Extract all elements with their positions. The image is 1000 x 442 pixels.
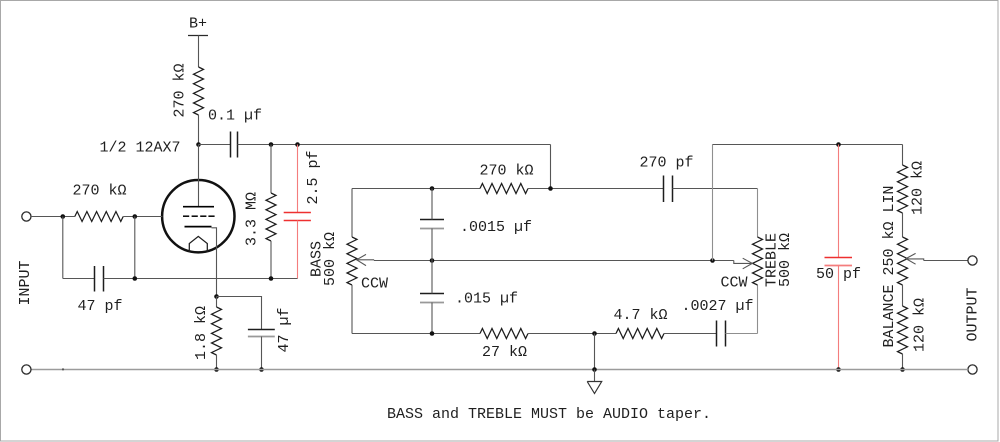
wire wiper row (374, 260, 712, 262)
wire treble pot bottom drop (757, 285, 759, 334)
wire cathode to 47uf (217, 297, 262, 330)
ground symbol (587, 370, 602, 394)
wire .0015 leads (431, 189, 433, 261)
wire input to grid R (31, 216, 75, 218)
potentiometer TREBLE 500k (753, 237, 763, 285)
capacitor .0015uf (420, 220, 444, 229)
capacitor 47pf grid (95, 266, 104, 292)
label 0.1 uf (208, 107, 262, 124)
resistor 1.8k cathode (212, 307, 222, 355)
wire ground rail (31, 369, 968, 371)
wire top rail drop (550, 145, 552, 189)
terminal input top (22, 212, 31, 221)
label 1.8 kOhm (193, 306, 210, 360)
wire .015 leads (431, 261, 433, 334)
tube cathode bar (185, 226, 212, 228)
label 500 kOhm bass (322, 232, 339, 286)
potentiometer BASS 500k (347, 237, 357, 285)
label BASS (308, 241, 325, 277)
resistor 3.3M feedback lead top (270, 145, 272, 194)
label 120 kOhm upper (909, 161, 926, 215)
svg-text:CCW: CCW (361, 275, 388, 292)
label 270 kOhm plate (172, 63, 189, 117)
label 3.3 MOhm (244, 192, 261, 246)
wire shunt right riser (134, 217, 136, 279)
capacitor 47uf cathode (248, 330, 275, 337)
capacitor 2.5pf feedback lead top (297, 145, 299, 213)
svg-text:270 kΩ: 270 kΩ (172, 63, 189, 117)
junction grid R right (133, 214, 138, 219)
resistor 27k (480, 329, 528, 339)
junction ground rail (592, 367, 597, 372)
junction 50pf bottom (836, 367, 841, 372)
capacitor 0.1uf coupling (231, 132, 238, 158)
resistor 120k lower (898, 306, 908, 354)
label 120 kOhm lower (912, 298, 929, 352)
svg-text:270 kΩ: 270 kΩ (479, 163, 533, 180)
wire stack top row (352, 188, 480, 190)
junction .015 bottom (430, 331, 435, 336)
tube plate lead (198, 145, 200, 207)
label 4.7 kOhm (613, 307, 667, 324)
wire R plate to plate node (198, 115, 200, 145)
label 2.5 pf (305, 150, 322, 204)
svg-text:47 µf: 47 µf (276, 307, 293, 352)
tube envelope circle (162, 180, 234, 252)
wire stack bottom left (352, 333, 480, 335)
svg-text:INPUT: INPUT (17, 260, 34, 305)
resistor 3.3M feedback (266, 193, 276, 241)
wire balance top drop (902, 145, 904, 166)
label 500 kOhm treble (777, 233, 794, 287)
wire grid R to tube (123, 216, 162, 218)
svg-text:47 pf: 47 pf (77, 298, 122, 315)
label 27 kOhm (482, 344, 527, 361)
junction 1.8k rail (214, 367, 219, 372)
svg-text:.0027 µf: .0027 µf (681, 298, 753, 315)
wire 3.3M bottom lead (270, 241, 272, 279)
label 270 kOhm grid (72, 183, 126, 200)
bass wiper arrow (357, 254, 374, 265)
junction feedback bottom (269, 276, 274, 281)
capacitor 50pf lead top (838, 145, 840, 258)
wire plate node to C coupling (199, 144, 231, 146)
svg-text:.015 µf: .015 µf (455, 290, 518, 307)
wire 120k to balance pot (902, 213, 904, 237)
junction shunt right (133, 276, 138, 281)
label 50 pf (816, 266, 861, 283)
capacitor .015uf (420, 294, 444, 303)
wire top right rail (713, 144, 903, 146)
balance wiper arrow (906, 253, 924, 264)
resistor 270k grid (75, 212, 123, 222)
label 47 pf (77, 298, 122, 315)
wire pot to 120k lower (902, 285, 904, 306)
wire input shunt left drop (62, 217, 64, 279)
svg-text:1.8 kΩ: 1.8 kΩ (193, 306, 210, 360)
svg-text:.0015 µf: .0015 µf (460, 219, 532, 236)
wire top rail left (238, 144, 551, 146)
resistor 270k plate load (194, 67, 204, 115)
resistor 1.8k cathode lead (216, 297, 218, 308)
svg-text:2.5 pf: 2.5 pf (305, 150, 322, 204)
wire 1.8k to ground rail (216, 355, 218, 370)
junction ground node (592, 331, 597, 336)
svg-text:270 kΩ: 270 kΩ (72, 183, 126, 200)
capacitor 50pf lead bottom (838, 266, 840, 370)
junction 2.5pf top (295, 142, 300, 147)
label .0015 uf (460, 219, 532, 236)
capacitor 2.5pf plates (284, 213, 311, 221)
wire treble pot top drop (757, 189, 759, 238)
potentiometer BALANCE 250k LIN (898, 237, 908, 285)
wire B+ to R plate (198, 36, 200, 68)
terminal input bottom (22, 365, 31, 374)
tube grid dashes (183, 215, 215, 217)
resistor 4.7k (616, 329, 664, 339)
terminal output wiper (968, 256, 977, 265)
wire 120k lower to rail (902, 354, 904, 370)
svg-text:OUTPUT: OUTPUT (965, 287, 982, 341)
svg-text:4.7 kΩ: 4.7 kΩ (613, 307, 667, 324)
capacitor 2.5pf lead bottom (297, 221, 299, 279)
label .0027 uf (681, 298, 753, 315)
svg-text:120 kΩ: 120 kΩ (909, 161, 926, 215)
wire shunt bottom right (104, 278, 298, 280)
terminal output bottom (968, 365, 977, 374)
svg-text:B+: B+ (189, 16, 207, 33)
wire .0027 to treble pot (726, 333, 758, 335)
tube heater (189, 236, 207, 252)
tube plate bar (183, 206, 214, 208)
svg-text:BALANCE 250 kΩ LIN: BALANCE 250 kΩ LIN (881, 185, 898, 347)
svg-text:500 kΩ: 500 kΩ (322, 232, 339, 286)
wire bass R to treble C (528, 188, 664, 190)
label TREBLE (763, 233, 780, 287)
junction .0015 bottom (430, 258, 435, 263)
resistor 120k upper (898, 165, 908, 213)
wire 270pf to treble pot (673, 188, 758, 190)
junction tick input ground (62, 368, 64, 370)
node B+ label (189, 16, 207, 33)
treble wiper arrow (734, 258, 753, 269)
svg-text:27 kΩ: 27 kΩ (482, 344, 527, 361)
svg-text:1/2 12AX7: 1/2 12AX7 (99, 140, 180, 157)
junction .0015 top (430, 186, 435, 191)
wire balance wiper to output (924, 260, 968, 262)
svg-text:3.3 MΩ: 3.3 MΩ (244, 192, 261, 246)
junction balance rail (900, 367, 905, 372)
wire 47uf to rail (261, 337, 263, 370)
wire treble riser (712, 145, 714, 261)
junction ground drop top (594, 334, 596, 370)
label BALANCE 250 kOhm LIN (881, 185, 898, 347)
capacitor 270pf treble (664, 176, 673, 203)
label 1/2 12AX7 (99, 140, 180, 157)
wire 27k to gnd node (528, 333, 616, 335)
wire bass pot top drop (351, 189, 353, 238)
wire shunt bottom left (63, 278, 95, 280)
junction 47uf rail (259, 367, 264, 372)
caption audio taper note (387, 406, 711, 423)
label CCW bass (361, 275, 388, 292)
wire bass pot bottom drop (351, 285, 353, 334)
label INPUT (17, 260, 34, 305)
node plate junction (196, 142, 201, 147)
junction cathode node (214, 294, 219, 299)
svg-text:120 kΩ: 120 kΩ (912, 298, 929, 352)
label CCW treble (720, 274, 747, 291)
wire treble wiper to riser (713, 260, 734, 262)
label 270 kOhm bass (479, 163, 533, 180)
wire 4.7k to .0027 (664, 333, 717, 335)
svg-text:0.1 µf: 0.1 µf (208, 107, 262, 124)
svg-text:500 kΩ: 500 kΩ (777, 233, 794, 287)
junction stack top mid (548, 186, 553, 191)
label .015 uf (455, 290, 518, 307)
capacitor 50pf plates (825, 258, 853, 266)
junction treble wiper (710, 258, 715, 263)
label 47 uf (276, 307, 293, 352)
label OUTPUT (965, 287, 982, 341)
svg-text:BASS and TREBLE MUST be AUDIO: BASS and TREBLE MUST be AUDIO taper. (387, 406, 711, 423)
capacitor .0027uf (717, 321, 726, 347)
resistor 270k bass (480, 184, 528, 194)
svg-text:270 pf: 270 pf (639, 155, 693, 172)
junction 3.3M top (269, 142, 274, 147)
junction input R left (61, 214, 66, 219)
tube cathode lead bend (212, 228, 217, 297)
label 270 pf (639, 155, 693, 172)
junction 50pf top (836, 142, 841, 147)
B+ terminal bar (188, 35, 208, 37)
svg-text:CCW: CCW (720, 274, 747, 291)
